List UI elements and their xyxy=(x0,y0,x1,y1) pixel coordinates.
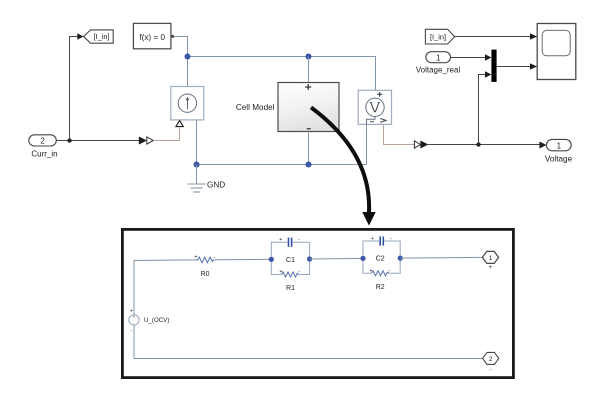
output port Voltage (1) xyxy=(539,139,571,150)
wire: Voltage_real to mux input 1 xyxy=(451,57,486,59)
mux xyxy=(491,50,496,82)
block f(x)=0 xyxy=(133,23,174,48)
node: voltage branch junction xyxy=(476,142,480,146)
svg-text:-: - xyxy=(298,237,300,243)
svg-text:Voltage: Voltage xyxy=(545,154,573,163)
svg-text:+: + xyxy=(279,269,282,275)
wire: source to bottom rail / bottom rail xyxy=(134,325,483,358)
node: rail/f(x) junction xyxy=(185,54,191,60)
from tag [I_in] xyxy=(425,29,454,44)
svg-text:+: + xyxy=(133,314,136,319)
svg-text:+: + xyxy=(489,265,493,271)
svg-text:2: 2 xyxy=(489,356,493,363)
svg-text:-: - xyxy=(131,328,133,334)
block Cell Model xyxy=(278,83,339,132)
wire: current source bottom xyxy=(196,120,198,165)
svg-text:Curr_in: Curr_in xyxy=(31,149,57,158)
svg-text:C1: C1 xyxy=(286,257,295,264)
svg-text:+: + xyxy=(194,255,197,261)
wire: C2 loop to port 1 xyxy=(400,256,483,259)
wire: Curr_in to Simulink-PS converter xyxy=(56,140,139,142)
converter Simulink-PS xyxy=(139,137,154,145)
wire: subsystem top rail left xyxy=(134,260,195,315)
svg-text:1: 1 xyxy=(489,255,493,262)
wire: from tag to scope input 1 xyxy=(455,36,531,38)
svg-text:f(x) = 0: f(x) = 0 xyxy=(139,33,165,42)
resistor R0 xyxy=(194,255,215,263)
svg-text:-: - xyxy=(299,269,301,275)
wire: f(x) output to top rail xyxy=(174,37,188,57)
converter PS-Simulink xyxy=(414,141,428,149)
RC pair C1/R1 xyxy=(269,237,313,277)
svg-text:1: 1 xyxy=(557,142,562,151)
svg-text:-: - xyxy=(490,367,492,373)
input port Curr_in (2) xyxy=(29,135,57,146)
goto tag [I_in] xyxy=(77,30,113,43)
wire: R0 to C1 loop xyxy=(214,258,271,261)
wire: current source top to rail xyxy=(187,57,189,87)
svg-text:R0: R0 xyxy=(201,271,210,278)
svg-text:[I_in]: [I_in] xyxy=(430,32,446,41)
svg-text:+: + xyxy=(279,237,282,243)
wire: junction up to goto tag xyxy=(70,37,78,141)
svg-text:-: - xyxy=(389,268,391,274)
svg-text:2: 2 xyxy=(40,137,45,146)
subsystem box xyxy=(122,229,513,377)
block Scope xyxy=(537,24,576,80)
wire: C1 loop to C2 loop xyxy=(310,257,363,260)
node: GND junction xyxy=(194,162,200,168)
RC pair C2/R2 xyxy=(360,236,402,276)
current source U_I xyxy=(171,87,204,127)
node: cell-bottom junction xyxy=(306,162,312,168)
wire: cell model bottom xyxy=(308,132,310,165)
svg-text:R2: R2 xyxy=(376,284,385,291)
svg-text:+: + xyxy=(369,268,372,274)
top rail xyxy=(188,57,376,91)
svg-text:Cell Model: Cell Model xyxy=(236,103,275,112)
wire: converter to current source signal port xyxy=(153,128,179,141)
svg-text:R1: R1 xyxy=(286,285,295,292)
wire: sensor PS out xyxy=(384,124,415,144)
wire: mux output to scope input 2 xyxy=(497,66,531,68)
port 2 hexagon xyxy=(483,352,499,373)
ground GND xyxy=(187,165,205,193)
wire: converter to Voltage port xyxy=(428,144,540,146)
wire: junction to mux second input xyxy=(479,75,486,145)
bottom rail xyxy=(197,124,367,164)
svg-text:Voltage_real: Voltage_real xyxy=(416,65,461,74)
svg-text:1: 1 xyxy=(436,54,441,63)
svg-text:[I_in]: [I_in] xyxy=(93,32,109,41)
node: Curr_in branch junction xyxy=(67,138,71,142)
port 1 hexagon xyxy=(482,251,498,271)
voltmeter U_V xyxy=(358,90,391,124)
svg-text:+: + xyxy=(130,308,133,314)
wire: rail to cell model top xyxy=(308,57,310,83)
svg-text:GND: GND xyxy=(207,180,225,189)
svg-text:C2: C2 xyxy=(376,256,385,263)
input port Voltage_real (1) xyxy=(426,52,451,63)
svg-text:-: - xyxy=(390,236,392,242)
node: rail/cell-top junction xyxy=(306,54,312,60)
voltage source U_(OCV) xyxy=(129,308,139,333)
svg-text:+: + xyxy=(371,236,374,242)
annotation arrow (Cell Model to subsystem) xyxy=(311,107,376,225)
svg-text:U_(OCV): U_(OCV) xyxy=(144,317,169,324)
